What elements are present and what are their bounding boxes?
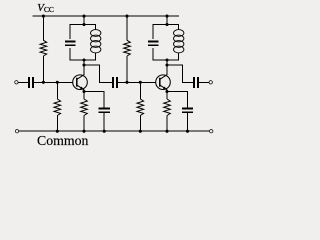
tank 2 frame xyxy=(153,25,179,39)
resistor R1 xyxy=(40,40,47,56)
terminal input xyxy=(15,81,18,84)
node collector2 xyxy=(165,63,168,66)
transistor Q2 xyxy=(156,75,171,90)
transistor Q1 xyxy=(73,75,88,90)
resistor R3 xyxy=(124,40,131,56)
resistor RE1 xyxy=(83,92,85,100)
wire tank1 to collector node xyxy=(83,60,85,75)
node ground-RE2 xyxy=(165,130,168,133)
resistor R2 xyxy=(54,99,61,116)
svg-text:VCC: VCC xyxy=(37,2,53,14)
capacitor C2 (tank 1) xyxy=(65,41,76,43)
node emitter1 xyxy=(82,90,85,93)
node base2-R3 xyxy=(125,81,128,84)
inductor L2 xyxy=(174,30,184,37)
node tank1 top xyxy=(82,23,85,26)
wire R3 vertical xyxy=(126,16,128,40)
node tank2 top xyxy=(165,23,168,26)
wire R2 vertical xyxy=(56,82,58,99)
wire input to C1 xyxy=(18,81,28,83)
node emitter2 xyxy=(165,90,168,93)
wire R4 vertical xyxy=(139,82,141,99)
terminal common right xyxy=(210,130,213,133)
capacitor C5 (output coupling) xyxy=(193,77,195,88)
node ground-RE1 xyxy=(82,130,85,133)
tank 1 top stem xyxy=(83,16,85,24)
wire C3 to base2 xyxy=(117,81,156,83)
wire emitter2 xyxy=(166,90,168,97)
wire R1 vertical xyxy=(42,16,44,40)
wire CE1 to ground xyxy=(103,113,105,131)
wire collector2 to C5 xyxy=(167,65,194,82)
node tank2 bottom xyxy=(165,58,168,61)
wire tank2 to collector node xyxy=(166,60,168,75)
node tank1 bottom xyxy=(82,58,85,61)
terminal output xyxy=(209,81,212,84)
capacitor CE2 (bypass) xyxy=(182,107,193,109)
wire C5 to output xyxy=(198,81,209,83)
node base1-R1 xyxy=(42,81,45,84)
capacitor C4 (tank 2) xyxy=(148,41,159,43)
node base1-R2 xyxy=(56,81,59,84)
node ground-CE1 xyxy=(103,130,106,133)
wire ground rail xyxy=(19,130,210,132)
wire collector1 to C3 xyxy=(84,65,113,82)
node base2-R4 xyxy=(139,81,142,84)
node ground-R2 xyxy=(56,130,59,133)
wire emitter2 to CE2 xyxy=(167,92,188,108)
terminal common left xyxy=(15,130,18,133)
resistor R4 xyxy=(137,99,144,116)
node collector1 xyxy=(82,63,85,66)
wire Vcc rail xyxy=(33,15,180,17)
wire C1 to base node xyxy=(33,81,73,83)
capacitor C1 (input coupling) xyxy=(28,77,30,88)
capacitor CE1 (bypass) xyxy=(99,107,110,109)
wire emitter1 to CE1 xyxy=(84,92,104,108)
node rail-tank2 xyxy=(165,15,168,18)
svg-text:Common: Common xyxy=(37,133,88,148)
tank 2 top stem xyxy=(166,16,168,24)
inductor L1 xyxy=(91,30,101,37)
wire emitter1 xyxy=(83,90,85,97)
node ground-CE2 xyxy=(186,130,189,133)
wire CE2 to ground xyxy=(187,113,189,131)
node rail-tank1 xyxy=(82,15,85,18)
node rail-R3 xyxy=(125,15,128,18)
node ground-R4 xyxy=(139,130,142,133)
node rail-R1 xyxy=(42,15,45,18)
tank 1 frame xyxy=(70,25,96,39)
capacitor C3 (interstage coupling) xyxy=(112,77,114,88)
resistor RE2 xyxy=(166,92,168,100)
